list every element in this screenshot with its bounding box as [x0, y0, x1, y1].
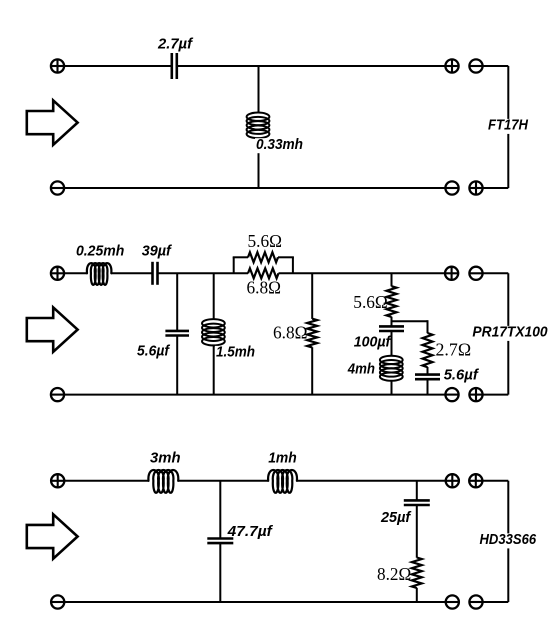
svg-text:1mh: 1mh [268, 450, 297, 467]
wire branchF upper HD33S66 [219, 481, 221, 539]
svg-text:5.6µf: 5.6µf [444, 366, 480, 383]
driver label PR17TX100 [471, 324, 548, 341]
wire branchC lower PR17TX100 [311, 347, 313, 394]
wire bypass top-right PR17TX100 [278, 256, 294, 258]
terminal + output-a FT17H [445, 59, 458, 72]
resistor 5.6ohm bypass [248, 252, 278, 262]
value label 5.6uf output [444, 366, 480, 383]
wire branchG lower HD33S66 [416, 588, 418, 602]
svg-text:1.5mh: 1.5mh [216, 344, 255, 361]
value label 0.33mh [255, 136, 304, 153]
svg-text:2.7Ω: 2.7Ω [436, 340, 472, 360]
wire bypass right PR17TX100 [292, 257, 294, 273]
wire speaker right PR17TX100 [507, 273, 509, 394]
value label 5.6ohm branch [353, 292, 388, 312]
wire top-left FT17H [64, 65, 172, 67]
wire speaker right HD33S66 [507, 481, 509, 602]
terminal + output-a HD33S66 [446, 474, 459, 487]
wire speaker top PR17TX100 [483, 272, 509, 274]
wire branchB lower PR17TX100 [213, 345, 215, 395]
wire branchA lower PR17TX100 [176, 336, 178, 395]
wire bottom PR17TX100 [64, 394, 445, 396]
value label 39uf [142, 243, 173, 260]
resistor 5.6ohm branch [387, 286, 397, 317]
resistor 8.2ohm [412, 558, 422, 589]
svg-text:25µf: 25µf [380, 509, 412, 526]
wire branchF lower HD33S66 [219, 543, 221, 602]
terminal + output-d PR17TX100 [469, 388, 482, 401]
wire branchD mid1 PR17TX100 [391, 317, 393, 327]
value label 0.25mh [76, 243, 124, 260]
wire bottom HD33S66 [64, 601, 445, 603]
input arrow FT17H [27, 100, 78, 144]
svg-text:5.6Ω: 5.6Ω [353, 292, 388, 312]
wire shunt lower FT17H [258, 138, 260, 188]
capacitor 100uf [379, 326, 404, 331]
wire bypass top-left PR17TX100 [233, 256, 248, 258]
driver label HD33S66 [479, 531, 538, 548]
wire top-right FT17H [177, 65, 445, 67]
svg-text:FT17H: FT17H [488, 117, 529, 134]
inductor 1.5mh [202, 319, 225, 345]
terminal - input FT17H [51, 181, 64, 194]
wire mid HD33S66 [178, 480, 268, 482]
wire speaker bottom PR17TX100 [483, 394, 509, 396]
wire branchC upper PR17TX100 [311, 273, 313, 319]
wire out HD33S66 [297, 480, 445, 482]
svg-text:2.7µf: 2.7µf [157, 36, 194, 53]
wire branchD top PR17TX100 [391, 273, 393, 286]
wire speaker bottom HD33S66 [482, 601, 508, 603]
wire branchE lower PR17TX100 [427, 379, 429, 395]
svg-text:5.6µf: 5.6µf [137, 343, 171, 360]
resistor 2.7ohm [423, 333, 433, 367]
terminal - output-c FT17H [445, 181, 458, 194]
wire branchA upper PR17TX100 [176, 273, 178, 331]
wire res-to-out PR17TX100 [279, 272, 446, 274]
wire branchD mid2 PR17TX100 [391, 331, 393, 356]
svg-text:39µf: 39µf [142, 243, 173, 260]
terminal - output-c PR17TX100 [445, 388, 458, 401]
inductor 0.25mh [87, 263, 112, 285]
wire speaker bottom FT17H [483, 187, 509, 189]
inductor 4mh [380, 356, 403, 381]
svg-text:5.6Ω: 5.6Ω [248, 231, 283, 251]
terminal + input FT17H [51, 59, 64, 72]
terminal + input PR17TX100 [51, 267, 64, 280]
wire speaker right FT17H [507, 66, 509, 188]
value label 5.6ohm bypass [248, 231, 283, 251]
terminal + output-b HD33S66 [469, 474, 482, 487]
value label 3mh [150, 450, 181, 467]
capacitor 5.6uf shunt [165, 331, 189, 336]
capacitor 39uf [153, 262, 158, 285]
terminal - input PR17TX100 [51, 388, 64, 401]
value label 6.8ohm shunt [273, 323, 308, 343]
capacitor 47.7uf [207, 539, 233, 544]
wire branchE upper PR17TX100 [427, 320, 429, 333]
resistor 6.8ohm shunt [307, 319, 317, 348]
terminal - output-d HD33S66 [469, 595, 482, 608]
wire bottom FT17H [64, 187, 445, 189]
value label 2.7uf [157, 36, 194, 53]
terminal - output-c HD33S66 [446, 595, 459, 608]
value label 1.5mh [215, 344, 256, 361]
wire cap-to-res PR17TX100 [158, 272, 248, 274]
value label 1mh [268, 450, 297, 467]
inductor 3mh [148, 470, 178, 493]
wire bypass left PR17TX100 [233, 257, 235, 273]
terminal - output-b PR17TX100 [469, 267, 482, 280]
wire branchG mid HD33S66 [416, 505, 418, 558]
wire input HD33S66 [64, 480, 149, 482]
value label 100uf [353, 334, 392, 351]
value label 8.2ohm [377, 564, 411, 584]
svg-text:PR17TX100: PR17TX100 [472, 324, 548, 341]
svg-text:100µf: 100µf [354, 334, 392, 351]
terminal + output-a PR17TX100 [445, 267, 458, 280]
capacitor 2.7uf [172, 53, 177, 79]
value label 5.6uf shunt [137, 343, 171, 360]
terminal - output-b FT17H [469, 59, 482, 72]
svg-text:0.33mh: 0.33mh [256, 136, 303, 153]
wire branchE mid PR17TX100 [427, 367, 429, 375]
value label 25uf [380, 509, 412, 526]
svg-text:4mh: 4mh [347, 361, 375, 378]
inductor 0.33mh [247, 113, 270, 139]
wire branchG upper HD33S66 [416, 481, 418, 501]
value label 6.8ohm series [247, 278, 282, 298]
input arrow HD33S66 [27, 514, 78, 558]
inductor 1mh [268, 470, 297, 493]
driver label FT17H [487, 117, 529, 134]
wire branchE link PR17TX100 [392, 320, 428, 322]
wire coil-to-cap PR17TX100 [111, 272, 152, 274]
svg-text:HD33S66: HD33S66 [480, 531, 537, 548]
terminal - input HD33S66 [51, 595, 64, 608]
wire branchB upper PR17TX100 [213, 273, 215, 320]
wire shunt upper FT17H [258, 66, 260, 114]
terminal + output-d FT17H [469, 181, 482, 194]
wire branchD bottom PR17TX100 [391, 380, 393, 394]
input arrow PR17TX100 [27, 307, 78, 351]
value label 2.7ohm [436, 340, 472, 360]
svg-text:3mh: 3mh [150, 450, 181, 467]
svg-text:47.7µf: 47.7µf [227, 523, 274, 540]
wire speaker top HD33S66 [482, 480, 508, 482]
terminal + input HD33S66 [51, 474, 64, 487]
value label 47.7uf [227, 523, 274, 540]
resistor 6.8ohm series [248, 268, 279, 278]
value label 4mh [347, 361, 375, 378]
capacitor 25uf [404, 500, 430, 505]
svg-text:6.8Ω: 6.8Ω [247, 278, 282, 298]
wire input PR17TX100 [64, 272, 87, 274]
wire speaker top FT17H [483, 65, 509, 67]
capacitor 5.6uf output [415, 375, 440, 380]
svg-text:6.8Ω: 6.8Ω [273, 323, 308, 343]
svg-text:0.25mh: 0.25mh [76, 243, 124, 260]
svg-text:8.2Ω: 8.2Ω [377, 564, 411, 584]
